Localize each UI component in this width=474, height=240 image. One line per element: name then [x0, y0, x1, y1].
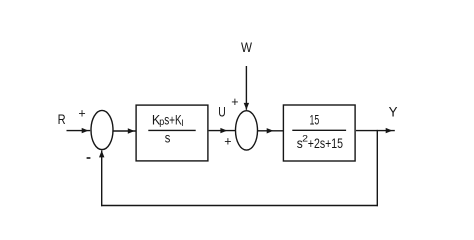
- arrowhead into S1: [82, 128, 89, 133]
- arrowhead on wire S2 to G2: [267, 128, 274, 133]
- svg-text:R: R: [58, 111, 66, 127]
- svg-text:U: U: [218, 104, 226, 120]
- feedback wire bottom run: [101, 205, 378, 207]
- svg-text:+: +: [231, 95, 238, 109]
- svg-text:+: +: [224, 135, 231, 149]
- feedback wire down from output node: [376, 130, 378, 206]
- wire G1 to summing junction S2: [209, 130, 236, 132]
- block G2 (plant): [283, 105, 355, 161]
- wire G2 to output Y: [356, 130, 395, 132]
- arrowhead into S1 bottom: [99, 150, 104, 157]
- svg-text:15: 15: [310, 113, 320, 128]
- wire W to S2: [245, 66, 247, 110]
- svg-text:s: s: [165, 131, 171, 146]
- G2 fraction bar: [292, 129, 346, 131]
- summing junction S2: [236, 111, 258, 150]
- arrowhead into S2 from W: [244, 103, 249, 110]
- svg-text:s+K: s+K: [164, 112, 182, 127]
- arrowhead on wire G1 to S2: [220, 128, 227, 133]
- arrowhead at output Y: [386, 128, 393, 133]
- svg-text:+2s+15: +2s+15: [308, 136, 343, 151]
- block G1 (PI controller): [136, 105, 208, 161]
- svg-text:W: W: [241, 39, 253, 55]
- wire S1 to block G1: [113, 130, 136, 132]
- wire R to S1: [67, 130, 91, 132]
- wire S2 to block G2: [258, 130, 284, 132]
- svg-text:I: I: [181, 118, 183, 128]
- feedback wire up into S1: [101, 150, 103, 206]
- summing junction S1: [91, 110, 113, 149]
- svg-text:+: +: [78, 107, 85, 121]
- svg-text:Y: Y: [389, 104, 399, 120]
- sign - (feedback input to S1): [87, 157, 91, 159]
- G1 fraction bar: [148, 129, 195, 131]
- arrowhead into G1: [128, 128, 135, 133]
